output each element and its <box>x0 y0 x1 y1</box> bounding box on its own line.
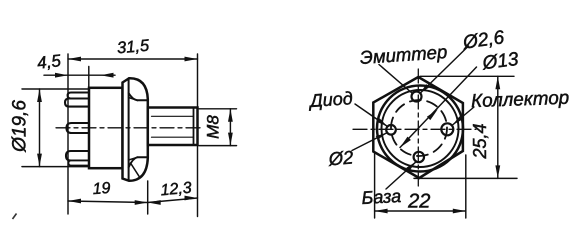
svg-text:M8: M8 <box>204 115 223 139</box>
stray scan mark <box>13 214 17 220</box>
pin (bottom lead, side view) <box>66 151 89 161</box>
arrow 22 left <box>375 209 388 214</box>
dimension line dia 19.6 <box>39 89 41 167</box>
thread root line top <box>152 115 194 117</box>
arrow 4.5 right <box>101 73 114 78</box>
pin circle dia 13 (dashed) <box>391 100 447 156</box>
hex flange corner wedge top <box>129 98 138 101</box>
svg-text:31,5: 31,5 <box>116 37 150 58</box>
threaded stud M8 (side view) <box>148 108 198 146</box>
extension 22 left <box>374 152 376 218</box>
svg-text:19: 19 <box>92 180 111 198</box>
transistor cap body (side view) <box>89 88 123 168</box>
arrow dia19.6 bottom <box>37 154 42 167</box>
svg-text:Коллектор: Коллектор <box>471 87 570 111</box>
hex flange outline (end view) <box>373 77 463 178</box>
outer circle (washer face) <box>377 86 463 172</box>
extension line left (pin tips) <box>67 54 69 214</box>
arrow 31.5 right <box>185 57 198 62</box>
dimension line 25,4 <box>497 76 499 178</box>
arrow base leader <box>406 162 416 171</box>
leader dia2,6 <box>420 46 469 93</box>
collector pin hole <box>441 123 453 135</box>
extension 22 right <box>465 155 467 218</box>
pin (middle lead, side view) <box>67 123 90 133</box>
dimension line 22 <box>375 210 466 212</box>
arrow 25,4 up <box>495 76 500 89</box>
leader base label <box>386 162 416 189</box>
svg-text:4,5: 4,5 <box>36 51 62 73</box>
M8 bottom extension <box>199 145 237 147</box>
extension 25,4 top <box>420 75 514 77</box>
arrow 22 right <box>453 209 466 214</box>
flange shading stroke <box>131 163 140 177</box>
svg-text:Ø2: Ø2 <box>327 146 355 169</box>
svg-text:Ø19,6: Ø19,6 <box>10 100 31 153</box>
arrow 12.3 right <box>185 196 198 201</box>
inner circle (cap dia) <box>382 90 459 167</box>
arrow dia13 upper-right <box>427 109 438 120</box>
arrow dia2 leader <box>376 133 387 140</box>
extension line cap left edge <box>88 67 90 89</box>
arrow dia2,6 at emitter pin <box>420 84 429 93</box>
base pin hole <box>414 152 424 162</box>
svg-text:12,3: 12,3 <box>160 180 193 200</box>
leader diode label <box>355 104 388 127</box>
svg-text:25,4: 25,4 <box>470 123 490 159</box>
dimension line dia 19.6 bottom extension <box>22 166 89 168</box>
arrow 12.3 left <box>148 200 161 205</box>
leader dia13 diagonal <box>400 67 477 148</box>
hex flange outline (side view) <box>123 78 148 181</box>
dimension line 19 <box>68 201 148 203</box>
leader dia2 <box>352 133 387 151</box>
svg-text:Диод: Диод <box>307 88 353 111</box>
pin (second top lead, side view) <box>65 99 89 107</box>
hex flange corner wedge bottom <box>129 157 138 160</box>
thread chamfer line <box>193 108 195 146</box>
hex flange corner edge top <box>137 99 148 101</box>
dimension line dia 19.6 top extension <box>22 88 89 90</box>
svg-text:База: База <box>361 186 402 208</box>
svg-text:22: 22 <box>407 191 430 213</box>
arrow 31.5 left <box>68 57 81 62</box>
pin (emitter lead, side view top) <box>68 93 89 99</box>
hex flange facet line <box>128 80 130 181</box>
hex flange corner arc top <box>129 93 138 100</box>
centerline of side view <box>56 127 203 129</box>
arrow 19 right <box>135 200 148 205</box>
arrow collector leader <box>453 116 463 125</box>
arrow 25,4 down <box>495 165 500 178</box>
hex flange corner edge bottom <box>137 156 148 158</box>
arrow M8 up <box>228 109 233 122</box>
diode pin hole <box>386 125 396 135</box>
arrow dia19.6 top <box>37 89 42 102</box>
extension line right (stud end) <box>197 54 199 217</box>
leader emitter label <box>379 65 413 94</box>
arrow 19 left <box>68 199 81 204</box>
hex flange corner arc bottom <box>129 157 138 167</box>
extension line flange right <box>147 181 149 214</box>
M8 dimension line <box>229 109 231 146</box>
dimension line 12.3 <box>148 198 198 203</box>
thread root line bottom <box>152 136 194 138</box>
horizontal centerline of end view <box>353 128 476 130</box>
emitter pin hole <box>412 92 422 102</box>
arrow M8 down <box>228 133 233 146</box>
pin (second bottom lead, side view) <box>69 161 90 166</box>
vertical centerline of end view <box>417 69 419 186</box>
dimension line 31.5 <box>68 58 198 60</box>
arrow 4.5 left <box>55 73 68 78</box>
dimension line 4.5 <box>44 74 115 76</box>
extension 25,4 bottom <box>414 177 517 179</box>
M8 top extension <box>199 108 237 110</box>
leader collector label <box>453 107 475 125</box>
arrow dia13 lower-left <box>400 137 411 148</box>
arrow diode leader <box>377 118 387 126</box>
